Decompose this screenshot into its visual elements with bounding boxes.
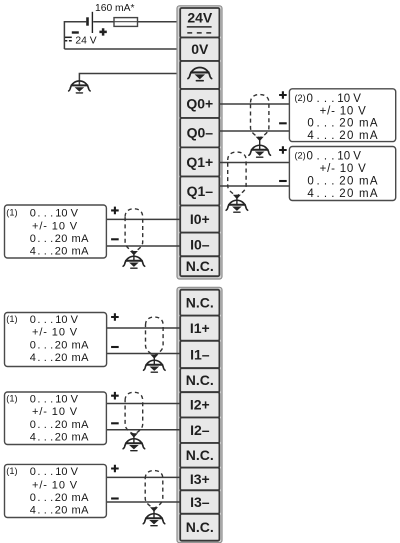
svg-text:4: 4 xyxy=(307,188,314,200)
wire I2+ xyxy=(106,403,180,405)
svg-text:N.C.: N.C. xyxy=(186,258,214,274)
wire battery to fuse xyxy=(93,21,114,23)
svg-text:0: 0 xyxy=(307,151,313,163)
svg-text:20 mA: 20 mA xyxy=(55,339,89,351)
terminal N.C. (g2 r4) xyxy=(180,368,219,392)
svg-text:...: ... xyxy=(317,130,339,142)
svg-text:160 mA*: 160 mA* xyxy=(95,3,135,14)
ground (top-left functional earth) xyxy=(69,81,91,93)
ground (I3 shield) xyxy=(143,514,165,526)
svg-text:20 mA: 20 mA xyxy=(339,176,379,188)
terminal Q0- xyxy=(180,118,219,147)
terminal N.C. (g2 r7) xyxy=(180,443,219,468)
svg-text:...: ... xyxy=(37,419,56,431)
svg-text:N.C.: N.C. xyxy=(186,372,214,388)
wire Q0+ xyxy=(219,103,289,105)
svg-text:(1): (1) xyxy=(6,393,17,403)
wire I2- xyxy=(106,429,180,431)
wire I3+ xyxy=(106,476,180,478)
svg-text:I2+: I2+ xyxy=(190,397,210,413)
wire Q0- xyxy=(219,130,289,132)
svg-text:...: ... xyxy=(317,118,339,130)
svg-text:+/- 10 V: +/- 10 V xyxy=(32,480,78,492)
svg-text:20 mA: 20 mA xyxy=(55,505,89,517)
ground (I2 shield) xyxy=(123,439,145,451)
svg-text:10 V: 10 V xyxy=(55,314,78,326)
svg-text:N.C.: N.C. xyxy=(186,519,214,535)
svg-text:20 mA: 20 mA xyxy=(55,492,89,504)
svg-text:20 mA: 20 mA xyxy=(55,352,89,364)
terminal strip group 2 outer xyxy=(177,287,222,542)
svg-text:Q1–: Q1– xyxy=(187,183,214,199)
wire I1+ xyxy=(107,327,181,329)
svg-text:I0–: I0– xyxy=(190,236,210,252)
terminal N.C. (g2 r10) xyxy=(180,514,219,541)
svg-text:N.C.: N.C. xyxy=(186,447,214,463)
terminal I2- xyxy=(180,418,219,444)
device box (1) for I2 xyxy=(5,392,107,445)
svg-text:0: 0 xyxy=(30,314,36,326)
svg-text:0: 0 xyxy=(30,393,36,405)
terminal 24V xyxy=(180,8,219,38)
terminal I3+ xyxy=(180,468,219,491)
svg-text:I1–: I1– xyxy=(190,346,210,362)
wire 24V supply top xyxy=(64,21,86,23)
terminal I0+ xyxy=(180,206,219,233)
svg-text:0: 0 xyxy=(30,492,36,504)
svg-text:20 mA: 20 mA xyxy=(339,118,379,130)
svg-text:20 mA: 20 mA xyxy=(339,188,379,200)
battery B1 xyxy=(72,12,107,36)
svg-text:4: 4 xyxy=(307,130,314,142)
svg-text:...: ... xyxy=(37,492,56,504)
svg-text:10 V: 10 V xyxy=(55,393,78,405)
svg-text:0: 0 xyxy=(30,466,36,478)
svg-text:...: ... xyxy=(37,505,56,517)
svg-text:0: 0 xyxy=(30,419,36,431)
shielded cable Q0 xyxy=(251,95,269,138)
node Q0 plus xyxy=(279,91,287,99)
node I0 minus xyxy=(111,238,119,240)
node I2 plus xyxy=(111,392,119,400)
svg-text:Q0–: Q0– xyxy=(187,125,214,141)
terminal N.C. (g2 r1) xyxy=(180,290,219,316)
node Q1 plus xyxy=(279,146,287,154)
shielded cable I3 xyxy=(145,471,163,509)
svg-text:...: ... xyxy=(37,314,56,326)
wire Q1+ xyxy=(219,162,289,164)
DC symbol and 24 V label xyxy=(64,36,96,47)
shielded cable Q1 xyxy=(228,152,246,196)
svg-text:10 V: 10 V xyxy=(55,466,78,478)
svg-text:20 mA: 20 mA xyxy=(339,130,379,142)
svg-text:...: ... xyxy=(317,188,339,200)
svg-text:I3+: I3+ xyxy=(190,471,210,487)
svg-text:0: 0 xyxy=(307,176,313,188)
terminal I1+ xyxy=(180,316,219,341)
svg-text:+/- 10 V: +/- 10 V xyxy=(32,220,78,232)
svg-text:20 mA: 20 mA xyxy=(55,432,89,444)
node I2 minus xyxy=(111,422,119,424)
svg-text:4: 4 xyxy=(30,505,36,517)
shielded cable I0 xyxy=(125,209,143,252)
wire I3- xyxy=(106,501,180,503)
node I0 plus xyxy=(111,207,119,215)
svg-text:(2): (2) xyxy=(295,93,306,103)
wire battery return left xyxy=(63,21,65,49)
wire I0- xyxy=(106,245,180,247)
terminal I1- xyxy=(180,341,219,368)
svg-text:0V: 0V xyxy=(191,41,209,57)
svg-text:I1+: I1+ xyxy=(190,320,210,336)
node I1 plus xyxy=(111,313,119,321)
svg-text:(1): (1) xyxy=(6,314,17,324)
svg-text:20 mA: 20 mA xyxy=(55,246,89,258)
terminal Q0+ xyxy=(180,89,219,118)
terminal 0V xyxy=(180,38,219,62)
svg-text:4: 4 xyxy=(30,246,36,258)
wire functional earth xyxy=(79,74,180,86)
svg-text:...: ... xyxy=(37,466,56,478)
node Q1 minus xyxy=(279,180,287,182)
svg-text:10 V: 10 V xyxy=(55,208,78,220)
ground (I0 shield) xyxy=(123,256,145,268)
svg-text:+/- 10 V: +/- 10 V xyxy=(32,327,78,339)
node I1 minus xyxy=(111,346,119,348)
svg-text:...: ... xyxy=(37,246,56,258)
svg-text:4: 4 xyxy=(30,432,36,444)
svg-text:Q1+: Q1+ xyxy=(186,154,213,170)
terminal I2+ xyxy=(180,392,219,417)
terminal I0- xyxy=(180,233,219,257)
svg-text:0: 0 xyxy=(30,208,36,220)
terminal Q1- xyxy=(180,177,219,206)
terminal I3- xyxy=(180,490,219,514)
terminal functional earth xyxy=(180,61,219,89)
svg-text:24V: 24V xyxy=(187,9,213,25)
ground (Q0 shield) xyxy=(249,145,271,157)
svg-text:10 V: 10 V xyxy=(337,151,361,163)
wire I1- xyxy=(107,353,181,355)
shielded cable I2 xyxy=(125,392,143,434)
device box (1) for I3 xyxy=(5,464,107,517)
svg-text:...: ... xyxy=(317,176,339,188)
svg-text:I2–: I2– xyxy=(190,422,210,438)
device box (1) for I1 xyxy=(5,313,107,367)
node I3 plus xyxy=(111,465,119,473)
device box (1) for I0 xyxy=(5,205,107,258)
svg-text:(2): (2) xyxy=(295,151,306,161)
terminal strip group 1 outer xyxy=(177,6,222,279)
wire 0V xyxy=(64,48,180,50)
svg-text:(1): (1) xyxy=(6,208,17,218)
svg-text:...: ... xyxy=(37,432,56,444)
wire I0+ xyxy=(106,218,180,220)
svg-text:N.C.: N.C. xyxy=(186,295,214,311)
svg-text:...: ... xyxy=(37,393,56,405)
svg-text:I3–: I3– xyxy=(190,494,210,510)
ground (Q1 shield) xyxy=(226,200,248,212)
node Q0 minus xyxy=(279,122,287,124)
terminal N.C. (group1) xyxy=(180,256,219,276)
wire Q1- xyxy=(219,185,289,187)
svg-text:4: 4 xyxy=(30,352,36,364)
device box (2) for Q0 xyxy=(289,89,395,142)
svg-text:Q0+: Q0+ xyxy=(186,95,213,111)
svg-text:20 mA: 20 mA xyxy=(55,233,89,245)
shielded cable I1 xyxy=(146,317,164,356)
fuse F1 160 mA xyxy=(95,3,138,27)
svg-text:0: 0 xyxy=(30,233,36,245)
svg-text:20 mA: 20 mA xyxy=(55,419,89,431)
svg-text:...: ... xyxy=(317,151,339,163)
svg-text:+/- 10 V: +/- 10 V xyxy=(320,105,367,117)
svg-text:(1): (1) xyxy=(6,466,17,476)
svg-text:+/- 10 V: +/- 10 V xyxy=(32,406,78,418)
svg-text:10 V: 10 V xyxy=(337,93,361,105)
ground (I1 shield) xyxy=(144,360,166,372)
svg-text:24 V: 24 V xyxy=(75,36,96,47)
device box (2) for Q1 xyxy=(289,147,395,201)
svg-text:I0+: I0+ xyxy=(190,211,210,227)
wire fuse to 24V terminal xyxy=(138,21,181,23)
node I3 minus xyxy=(111,497,119,499)
terminal Q1+ xyxy=(180,147,219,176)
svg-text:0: 0 xyxy=(307,93,313,105)
svg-text:...: ... xyxy=(37,339,56,351)
svg-text:0: 0 xyxy=(307,118,313,130)
svg-text:...: ... xyxy=(37,352,56,364)
svg-text:+/- 10 V: +/- 10 V xyxy=(320,163,367,175)
svg-text:0: 0 xyxy=(30,339,36,351)
svg-text:...: ... xyxy=(37,233,56,245)
svg-text:...: ... xyxy=(37,208,56,220)
svg-text:...: ... xyxy=(317,93,339,105)
